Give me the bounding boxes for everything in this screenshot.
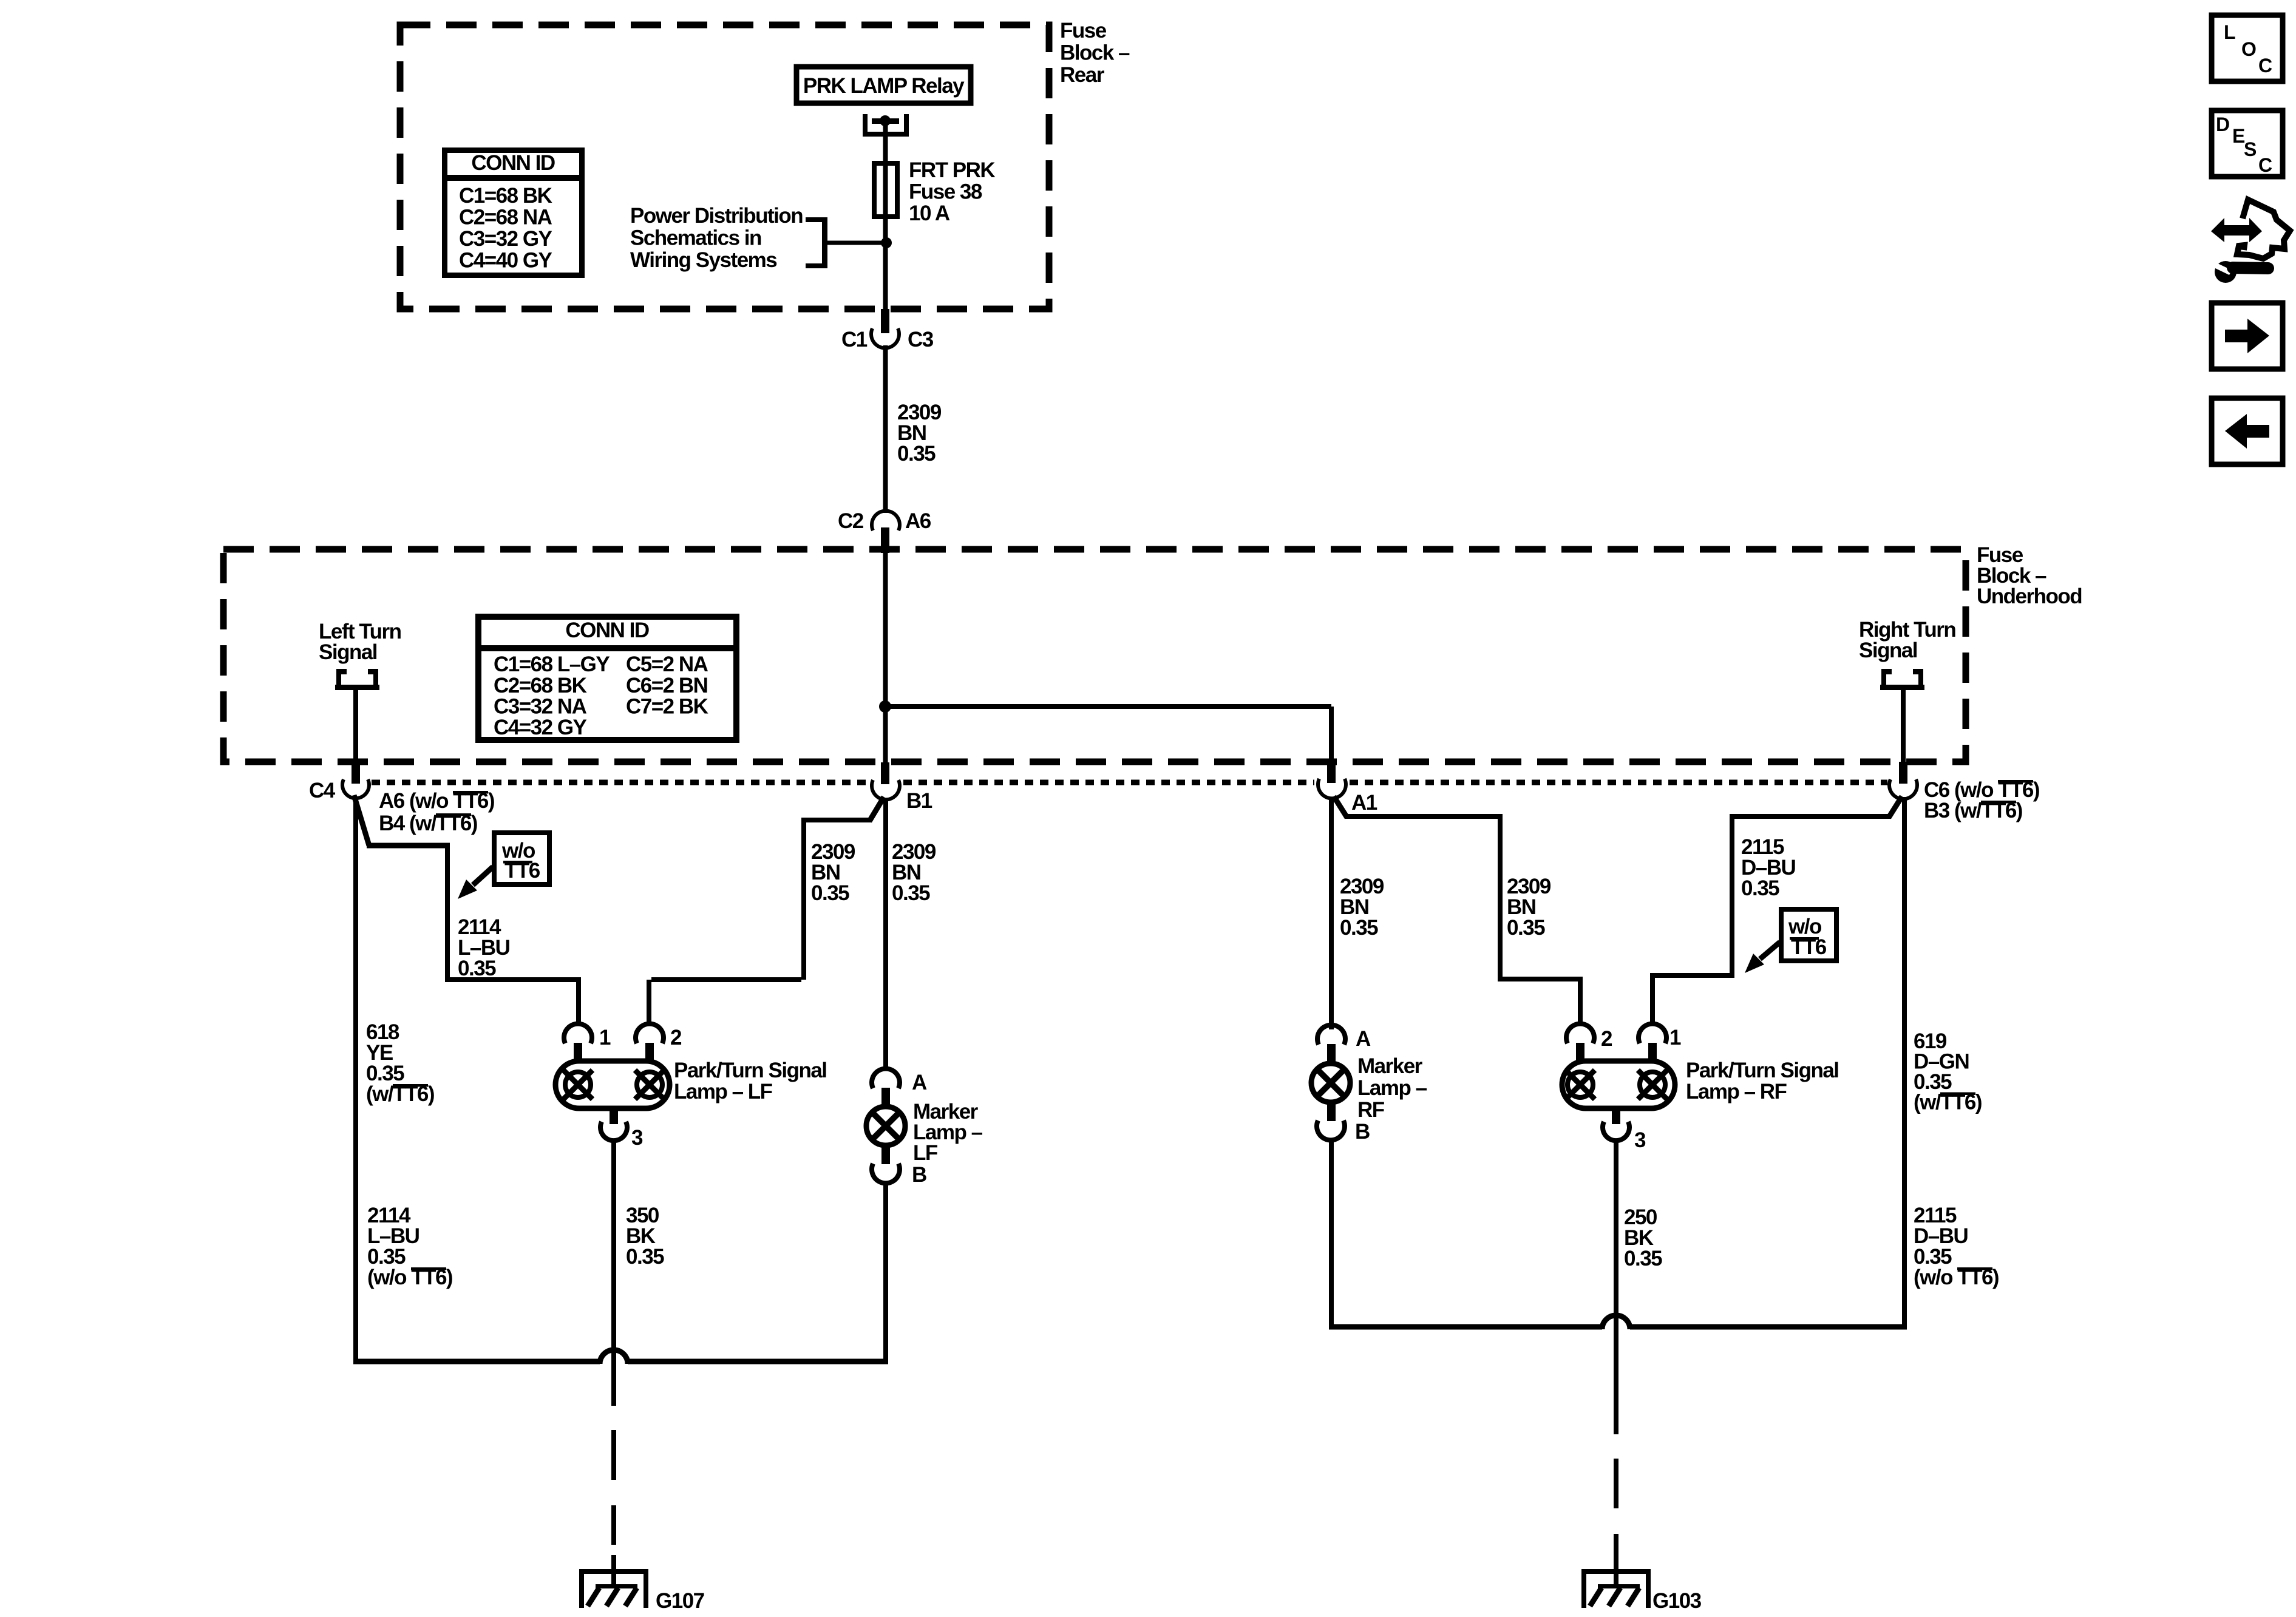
overline TT6 (A6 line) <box>453 791 488 794</box>
dotted connector-face line (underhood connectors row) <box>372 780 1887 785</box>
svg-text:C1=68 L–GY C2=68 BK C3=32 NA C: C1=68 L–GY C2=68 BK C3=32 NA C4=32 GY <box>494 653 614 739</box>
svg-text:G107: G107 <box>656 1589 704 1613</box>
wire 2309 BN 0.35 (C1 to C2) <box>883 345 888 513</box>
svg-text:Marker Lamp – LF: Marker Lamp – LF <box>913 1100 987 1165</box>
svg-text:C1: C1 <box>841 328 868 351</box>
svg-text:350 BK 0.35: 350 BK 0.35 <box>626 1204 664 1269</box>
lamp E4 Park/Turn Signal Lamp - RF <box>1562 1024 1675 1141</box>
CONN ID table (fuse block rear) <box>442 151 585 276</box>
svg-text:Power Distribution Schematics: Power Distribution Schematics in Wiring … <box>630 204 807 272</box>
wire ground drop G107 (solid) <box>611 1347 616 1406</box>
wire left turn signal feed to C4 <box>353 690 358 763</box>
wire B1 diagonal to 2309 branch <box>869 797 884 821</box>
svg-text:PRK LAMP Relay: PRK LAMP Relay <box>803 74 965 98</box>
overline TT6 (C6 line) <box>1998 780 2033 783</box>
wire down to lamp LF pin 2 <box>647 980 651 1026</box>
svg-text:2114 L–BU 0.35: 2114 L–BU 0.35 <box>458 915 515 980</box>
wire ground drop G107 (dashed) <box>611 1430 616 1545</box>
svg-text:w/oTT6: w/oTT6 <box>1788 915 1827 959</box>
overline TT6 (2114 label) <box>411 1267 446 1270</box>
svg-text:LOC: LOC <box>2224 21 2272 76</box>
wire marker LF pin B down <box>883 1181 888 1361</box>
svg-text:619 D–GN 0.35 (w/TT6): 619 D–GN 0.35 (w/TT6) <box>1914 1029 1982 1114</box>
svg-text:C2: C2 <box>838 509 864 533</box>
svg-text:2: 2 <box>670 1026 682 1049</box>
w/o TT6 option box (left) <box>494 833 549 884</box>
connector C1/C3 (fuse block rear to harness) <box>881 309 889 333</box>
sidebar icon LOC <box>2212 15 2283 81</box>
wire down to lamp RF pin 2 <box>1578 979 1583 1026</box>
svg-text:C4: C4 <box>309 779 336 802</box>
connector C6 (right turn feed) <box>1899 762 1907 784</box>
svg-text:B: B <box>912 1163 926 1187</box>
svg-text:Park/Turn Signal Lamp – RF: Park/Turn Signal Lamp – RF <box>1686 1059 1844 1103</box>
svg-text:1: 1 <box>599 1026 611 1049</box>
wire 619 D-GN / 2115 D-BU (C6 straight down) <box>1902 797 1907 1327</box>
wire 2309 jog to pin 2 (right) <box>1498 977 1583 981</box>
wire C6 diagonal to 2115 branch <box>1889 796 1902 818</box>
wire underhood drop to A1 <box>1329 707 1334 765</box>
svg-text:618 YE 0.35 (w/TT6): 618 YE 0.35 (w/TT6) <box>366 1020 434 1106</box>
overline TT6 (619 label) <box>1940 1093 1975 1096</box>
svg-text:A: A <box>1356 1027 1371 1051</box>
relay contact terminal symbol <box>863 114 909 137</box>
svg-text:FRT PRK Fuse 38 10 A: FRT PRK Fuse 38 10 A <box>909 158 999 225</box>
svg-text:250 BK 0.35: 250 BK 0.35 <box>1624 1205 1662 1270</box>
wire ground bus right (marker side) <box>1329 1324 1602 1330</box>
sidebar icon forward arrow <box>2212 303 2283 369</box>
svg-text:2309 BN 0.35: 2309 BN 0.35 <box>897 401 946 466</box>
svg-text:A: A <box>912 1071 927 1094</box>
svg-text:3: 3 <box>1634 1128 1646 1152</box>
wire power distribution tap <box>827 241 886 245</box>
wire ground drop G103 (solid) <box>1614 1313 1618 1434</box>
svg-text:2309 BN 0.35: 2309 BN 0.35 <box>811 840 860 905</box>
wire 2309 BN down to marker lamp RF <box>1329 798 1334 1029</box>
relay K1 PRK LAMP Relay box <box>796 67 971 103</box>
connector C2/A6 (harness to fuse block underhood) <box>872 511 900 531</box>
left turn signal terminal bracket <box>335 669 379 690</box>
sidebar icon back arrow <box>2212 398 2283 464</box>
svg-text:C1=68 BK C2=68 NA C3=32 GY C4=: C1=68 BK C2=68 NA C3=32 GY C4=40 GY <box>459 184 557 273</box>
wire 2115 jog to pin 1 <box>1650 973 1734 978</box>
bracket power distribution reference <box>806 217 827 268</box>
wire 2309 jog to pin 2 <box>651 977 801 982</box>
svg-text:B: B <box>1355 1120 1370 1144</box>
wire 2115 D-BU vertical <box>1730 816 1734 975</box>
wire 2115 jog horizontal <box>1730 814 1891 819</box>
overline TT6 (2115 label) <box>1957 1267 1992 1270</box>
connector A1 (park lamp feed right) <box>1327 760 1336 783</box>
wire marker RF pin B down <box>1329 1138 1334 1327</box>
wire A1 diagonal to 2309 branch <box>1334 796 1347 818</box>
wire ground bus left (C4 side) <box>353 1359 600 1364</box>
wire 2114 jog horizontal <box>367 843 450 849</box>
svg-text:B1: B1 <box>906 789 932 813</box>
lamp E1 Park/Turn Signal Lamp - LF <box>555 1024 670 1141</box>
svg-text:CONN ID: CONN ID <box>565 619 649 642</box>
wire crossover hop (right) <box>1602 1315 1630 1329</box>
svg-text:C3: C3 <box>908 328 934 351</box>
svg-text:G103: G103 <box>1652 1589 1702 1613</box>
wire relay through fuse to connector C1 <box>883 124 888 311</box>
wire 2309 BN down to marker lamp LF <box>883 798 888 1071</box>
svg-text:Fuse Block – Rear: Fuse Block – Rear <box>1060 19 1134 87</box>
sidebar icon DESC <box>2212 110 2283 177</box>
svg-text:A6 (w/o TT6) B4 (w/TT6): A6 (w/o TT6) B4 (w/TT6) <box>379 789 499 835</box>
lamp E3 Marker Lamp - RF <box>1311 1025 1350 1141</box>
svg-text:Park/Turn Signal Lamp – LF: Park/Turn Signal Lamp – LF <box>674 1059 832 1103</box>
svg-text:C6 (w/o TT6) B3 (w/TT6): C6 (w/o TT6) B3 (w/TT6) <box>1924 778 2044 822</box>
connector B1 (park lamp feed left) <box>881 762 889 784</box>
svg-text:DESC: DESC <box>2216 114 2272 176</box>
overline TT6 (B3 line) <box>1981 801 2016 804</box>
w/o TT6 arrow (left) <box>473 867 493 885</box>
svg-text:2309 BN 0.35: 2309 BN 0.35 <box>1507 875 1555 940</box>
svg-text:2115 D–BU 0.35: 2115 D–BU 0.35 <box>1741 835 1801 900</box>
junction dot power distribution tap <box>881 237 892 248</box>
junction dot underhood bus <box>879 700 891 713</box>
svg-text:2115 D–BU 0.35 (w/o TT6): 2115 D–BU 0.35 (w/o TT6) <box>1914 1204 1999 1289</box>
CONN ID table (fuse block underhood) <box>475 617 739 740</box>
wire ground bus right (C6 side) <box>1630 1324 1907 1330</box>
wire C4 diagonal to 2114 branch <box>354 795 369 846</box>
wire 2114 L-BU vertical <box>445 846 450 980</box>
svg-text:A6: A6 <box>905 509 931 533</box>
wire 2309 BN vertical (left) <box>801 820 806 980</box>
sidebar icon part-locator (outline, double arrow, wrench) <box>2211 200 2290 283</box>
wire 350 BK from lamp LF pin 3 <box>611 1139 616 1347</box>
wire down to lamp LF pin 1 <box>576 980 581 1026</box>
svg-text:2309 BN 0.35: 2309 BN 0.35 <box>892 840 940 905</box>
wire 2309 jog horizontal (right) <box>1345 814 1503 819</box>
ground G107 <box>579 1555 704 1613</box>
wire down to lamp RF pin 1 <box>1650 975 1655 1026</box>
wire 618 YE / 2114 L-BU (C4 straight down) <box>353 797 358 1361</box>
svg-text:3: 3 <box>631 1126 643 1150</box>
fuse block underhood dashed border <box>223 549 1966 762</box>
svg-text:Right Turn Signal: Right Turn Signal <box>1859 618 1961 662</box>
wire ground drop G103 (dashed) <box>1614 1459 1618 1573</box>
wire inside underhood block (down to B1) <box>883 548 888 765</box>
wire 2309 jog horizontal <box>801 818 872 822</box>
fuse FRT PRK Fuse 38 10A symbol <box>874 163 897 217</box>
w/o TT6 arrow (right) <box>1760 942 1780 959</box>
svg-text:2309 BN 0.35: 2309 BN 0.35 <box>1340 875 1388 940</box>
overline TT6 (B4 line) <box>436 813 471 816</box>
wire underhood bus to A1 <box>885 704 1331 709</box>
wire crossover hop (left) <box>600 1350 628 1364</box>
wire ground bus left (marker side) <box>628 1359 888 1364</box>
svg-text:Marker Lamp – RF: Marker Lamp – RF <box>1357 1054 1432 1122</box>
wire right turn signal feed to C6 <box>1901 690 1906 763</box>
lamp E2 Marker Lamp - LF <box>866 1069 905 1184</box>
overline TT6 (618 label) <box>393 1084 428 1087</box>
connector C4 (left turn feed) <box>352 762 360 784</box>
right turn signal terminal bracket <box>1880 669 1924 690</box>
wire 250 BK from lamp RF pin 3 <box>1614 1139 1618 1313</box>
svg-text:2114 L–BU 0.35 (w/o TT6): 2114 L–BU 0.35 (w/o TT6) <box>367 1204 452 1289</box>
w/o TT6 option box (right) <box>1781 909 1836 961</box>
svg-text:2: 2 <box>1601 1027 1612 1051</box>
svg-text:C5=2 NA C6=2 BN C7=2 BK: C5=2 NA C6=2 BN C7=2 BK <box>626 653 713 719</box>
wire 2114 jog to pin 1 <box>445 977 581 982</box>
svg-text:A1: A1 <box>1351 791 1377 815</box>
ground G103 <box>1581 1555 1702 1613</box>
svg-text:Fuse Block – Underhood: Fuse Block – Underhood <box>1977 543 2082 608</box>
fuse block rear dashed border <box>400 25 1049 309</box>
svg-text:1: 1 <box>1669 1026 1681 1049</box>
svg-text:CONN ID: CONN ID <box>471 151 555 175</box>
wire 2309 BN vertical (right) <box>1498 816 1503 979</box>
svg-text:Left Turn Signal: Left Turn Signal <box>319 620 406 664</box>
